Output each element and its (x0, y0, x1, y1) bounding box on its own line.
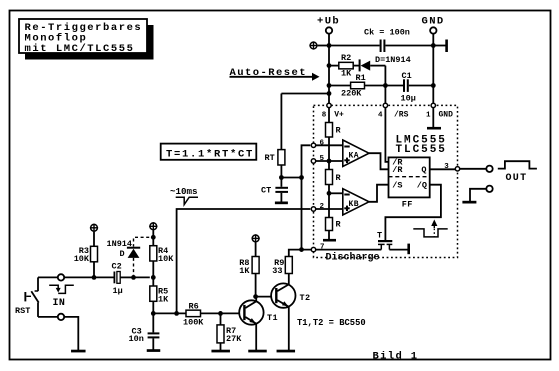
svg-text:T1: T1 (267, 313, 278, 323)
svg-text:C2: C2 (112, 261, 122, 271)
svg-text:1K: 1K (239, 266, 250, 276)
svg-text:IN: IN (53, 298, 66, 309)
svg-text:+Ub: +Ub (317, 16, 340, 28)
svg-text:10n: 10n (129, 334, 144, 344)
svg-text:KA: KA (349, 151, 359, 160)
svg-text:8: 8 (322, 111, 327, 119)
svg-text:GND: GND (439, 110, 454, 119)
svg-text:D: D (120, 249, 125, 259)
svg-text:TLC555: TLC555 (396, 144, 447, 156)
svg-text:220K: 220K (341, 88, 362, 98)
svg-text:1: 1 (426, 111, 431, 119)
svg-text:10K: 10K (158, 254, 174, 264)
svg-text:33: 33 (272, 266, 282, 276)
svg-text:1µ: 1µ (113, 286, 123, 296)
svg-text:/Q: /Q (417, 181, 427, 191)
svg-text:100K: 100K (183, 317, 204, 327)
svg-text:V+: V+ (334, 110, 344, 119)
svg-text:R: R (336, 126, 342, 136)
svg-text:T: T (377, 230, 382, 240)
svg-text:1N914: 1N914 (107, 239, 133, 249)
svg-text:6: 6 (320, 140, 325, 148)
svg-text:mit LMC/TLC555: mit LMC/TLC555 (25, 43, 135, 55)
svg-text:Ck = 100n: Ck = 100n (364, 27, 410, 37)
svg-text:GND: GND (422, 16, 445, 28)
svg-text:Discharge: Discharge (326, 251, 380, 263)
svg-text:D=1N914: D=1N914 (375, 55, 411, 65)
svg-text:R6: R6 (189, 301, 199, 311)
svg-text:FF: FF (402, 200, 413, 210)
svg-text:T=1.1*RT*CT: T=1.1*RT*CT (166, 148, 254, 160)
svg-text:T2: T2 (300, 293, 311, 303)
svg-text:/S: /S (392, 181, 402, 191)
svg-text:CT: CT (261, 186, 271, 196)
svg-text:RT: RT (265, 153, 275, 163)
svg-text:/RS: /RS (394, 110, 409, 119)
svg-text:10µ: 10µ (401, 93, 416, 103)
svg-text:KB: KB (349, 200, 359, 209)
svg-text:~10ms: ~10ms (170, 186, 198, 197)
svg-text:T1,T2 = BC550: T1,T2 = BC550 (297, 318, 366, 328)
svg-text:4: 4 (378, 111, 383, 119)
svg-text:/R: /R (392, 165, 403, 175)
svg-text:Bild 1: Bild 1 (373, 351, 419, 363)
svg-text:R1: R1 (356, 73, 366, 83)
svg-text:1K: 1K (341, 69, 352, 79)
svg-text:OUT: OUT (506, 173, 528, 184)
svg-text:C1: C1 (402, 71, 412, 81)
svg-text:RST: RST (15, 306, 30, 316)
svg-text:1K: 1K (158, 294, 169, 304)
svg-text:5: 5 (320, 155, 325, 163)
svg-text:Q: Q (421, 165, 426, 175)
svg-text:2: 2 (320, 203, 325, 211)
svg-text:27K: 27K (226, 334, 242, 344)
svg-text:R: R (336, 220, 342, 230)
svg-text:R2: R2 (341, 53, 351, 63)
svg-text:R: R (336, 173, 342, 183)
svg-text:10K: 10K (74, 254, 90, 264)
